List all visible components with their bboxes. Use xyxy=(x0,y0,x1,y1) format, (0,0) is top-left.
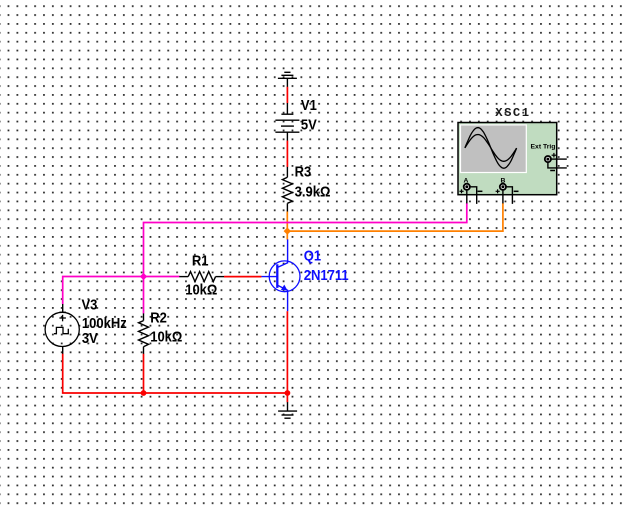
wire junction-collector (orange) xyxy=(286,231,288,240)
pin B plus stub xyxy=(502,190,504,203)
pin A plus stub xyxy=(466,190,468,203)
resistor R3 xyxy=(282,167,292,212)
transistor Q1 xyxy=(261,239,300,311)
node collector junction xyxy=(284,227,291,234)
pin A minus stub xyxy=(470,187,477,204)
wire emitter-bottom (red) xyxy=(286,311,288,393)
svg-text:Q1: Q1 xyxy=(304,247,322,264)
wire V1-R3 xyxy=(286,141,288,168)
wire V3-bottom (red) xyxy=(63,354,288,393)
battery V1 xyxy=(275,103,299,141)
wire junction-scopeB (orange) xyxy=(287,203,503,231)
svg-text:R1: R1 xyxy=(192,251,209,268)
svg-text:2N1711: 2N1711 xyxy=(304,266,349,283)
svg-text:XSC1: XSC1 xyxy=(495,106,530,120)
wire junction-R2 (magenta) xyxy=(143,277,145,314)
ground top xyxy=(278,72,297,87)
svg-text:5V: 5V xyxy=(301,115,318,132)
terminal A xyxy=(460,184,483,194)
svg-text:3V: 3V xyxy=(82,329,99,346)
resistor R2 xyxy=(139,313,149,354)
wire R1-Q1 base (red) xyxy=(224,276,261,278)
pin ExtTrig plus stub xyxy=(551,158,567,160)
node emitter bottom junction xyxy=(285,390,291,396)
wire R2-bottom (red) xyxy=(143,354,145,393)
svg-text:R3: R3 xyxy=(295,162,312,179)
pin B minus stub xyxy=(506,187,512,204)
svg-text:10kΩ: 10kΩ xyxy=(150,327,182,344)
svg-text:R2: R2 xyxy=(150,308,167,325)
node R2 bottom junction xyxy=(141,390,147,396)
wire R3-junction (orange) xyxy=(286,212,288,232)
ground bottom xyxy=(278,402,297,418)
wire junction-ground (red) xyxy=(286,393,288,402)
resistor R1 xyxy=(179,272,224,282)
svg-text:10kΩ: 10kΩ xyxy=(185,281,217,298)
svg-text:Ext Trig: Ext Trig xyxy=(531,144,556,151)
source V3 xyxy=(45,304,79,354)
wire base net (magenta) xyxy=(63,277,180,305)
wire gnd-V1 xyxy=(286,87,288,103)
pin ExtTrig minus stub xyxy=(548,162,567,168)
terminal ExtTrig xyxy=(545,153,556,171)
svg-text:3.9kΩ: 3.9kΩ xyxy=(295,182,331,199)
svg-text:V3: V3 xyxy=(82,296,98,313)
oscilloscope XSC1 xyxy=(458,123,557,195)
terminal B xyxy=(496,184,519,194)
node base junction xyxy=(140,273,147,280)
svg-text:V1: V1 xyxy=(301,96,317,113)
wire scopeA (magenta) xyxy=(144,203,467,277)
